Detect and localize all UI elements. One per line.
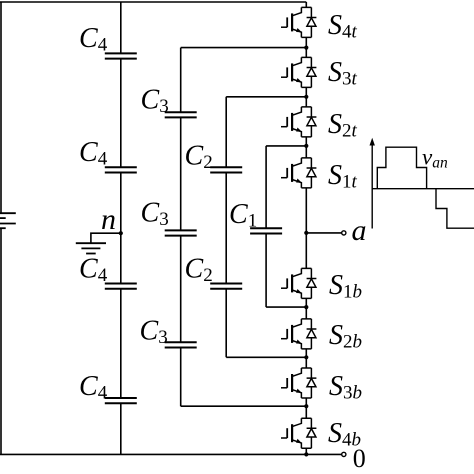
wire top rail <box>0 1 306 3</box>
svg-text:C4: C4 <box>79 253 108 286</box>
junction dot d2 <box>304 95 308 99</box>
svg-text:C4: C4 <box>79 137 108 170</box>
svg-text:a: a <box>352 214 367 247</box>
transistor S4t <box>281 7 316 37</box>
svg-text:C3: C3 <box>141 85 169 118</box>
junction dot d4 <box>304 305 308 309</box>
wire d5 horizontal (C2 leg to S2b/S3b junction) <box>226 356 306 358</box>
svg-text:C2: C2 <box>185 254 213 287</box>
transistor S1t <box>281 158 316 188</box>
svg-text:C1: C1 <box>229 199 257 232</box>
capacitor C2 (2) <box>210 284 242 289</box>
wire d6 horizontal (C3 leg to S3b/S4b junction) <box>181 405 307 407</box>
svg-text:C3: C3 <box>140 316 168 349</box>
wire C4 leg segments <box>120 2 122 454</box>
wire C1 leg segments <box>265 146 267 307</box>
capacitor C3 (3) <box>165 342 197 347</box>
junction dot bottom <box>304 452 308 456</box>
battery E (clipped at left edge) <box>0 213 16 228</box>
transistor S4b <box>281 418 316 448</box>
junction dot d5 <box>304 355 308 359</box>
wire C2 leg segments <box>225 97 227 358</box>
terminal 0 open circle <box>342 452 346 456</box>
capacitor C3 (2) <box>165 230 197 235</box>
capacitor C2 (1) <box>210 167 242 172</box>
wire node n to ground <box>91 233 121 243</box>
svg-text:van: van <box>422 144 448 171</box>
wire left bus upper <box>0 2 2 213</box>
waveform staircase <box>377 147 474 228</box>
wire terminal 0 stub <box>306 453 341 455</box>
waveform axis vertical arrow <box>371 144 373 229</box>
capacitor C4 (2) <box>105 167 137 172</box>
svg-text:C4: C4 <box>79 23 108 56</box>
svg-text:S1b: S1b <box>329 270 362 303</box>
wire d2 horizontal (S3t/S2t junction to C2 leg) <box>226 96 306 98</box>
junction dot d1 <box>304 46 308 50</box>
wire bottom rail <box>0 453 306 455</box>
junction dot node a <box>304 231 308 235</box>
transistor S3b <box>281 368 316 398</box>
svg-text:S2b: S2b <box>329 320 362 353</box>
transistor S1b <box>281 268 316 298</box>
wire main string vertical segments <box>305 2 307 454</box>
transistor S3t <box>281 57 316 87</box>
wire d1 horizontal (S4t/S3t junction to C3 leg) <box>181 47 307 49</box>
svg-text:C2: C2 <box>185 140 213 173</box>
junction dot d3 <box>304 144 308 148</box>
svg-text:C3: C3 <box>141 198 169 231</box>
wire d3 horizontal (S2t/S1t junction to C1 leg) <box>266 145 306 147</box>
capacitor C4 (3) <box>105 284 137 289</box>
svg-text:S3b: S3b <box>329 371 362 404</box>
svg-text:S2t: S2t <box>328 109 358 142</box>
node n junction dot <box>119 231 123 235</box>
capacitor C1 <box>250 228 282 233</box>
ground symbol <box>76 243 106 253</box>
waveform time axis <box>372 188 474 190</box>
wire d4 horizontal (C1 leg to S1b/S2b junction) <box>266 306 306 308</box>
svg-text:n: n <box>101 203 116 236</box>
capacitor C3 (1) <box>165 112 197 117</box>
transistor S2b <box>281 319 316 349</box>
wire left bus lower <box>0 228 2 454</box>
capacitor C4 (4) <box>105 398 137 403</box>
transistor S2t <box>281 107 316 137</box>
svg-text:0: 0 <box>353 444 366 473</box>
svg-text:S4t: S4t <box>328 10 358 43</box>
junction dot d6 <box>304 404 308 408</box>
terminal a open circle <box>342 231 346 235</box>
wire node a stub <box>306 232 341 234</box>
svg-text:S3t: S3t <box>328 57 358 90</box>
svg-text:S1t: S1t <box>328 160 358 193</box>
wire C3 leg segments <box>180 48 182 407</box>
svg-text:C4: C4 <box>79 371 108 404</box>
capacitor C4 (1) <box>105 53 137 58</box>
